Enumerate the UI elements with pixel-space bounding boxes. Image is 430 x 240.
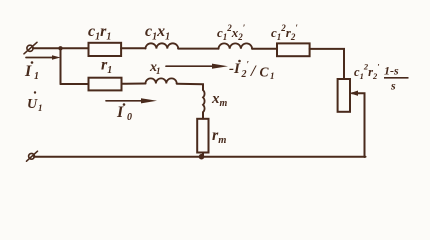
wire bottom rail: [34, 156, 366, 158]
label I0: [116, 103, 132, 123]
wire top rail: terminal to junction to resistor c1r1: [33, 47, 89, 49]
wire between c1x1 and inductor c1^2x2': [178, 48, 218, 50]
svg-text:1: 1: [270, 71, 275, 81]
svg-text:c1r1: c1r1: [88, 23, 111, 43]
label c1^2r2'(1-s)/s with fraction: [354, 62, 409, 93]
svg-text:0: 0: [127, 112, 132, 123]
svg-text:1: 1: [38, 103, 43, 113]
current arrow I0: [106, 98, 157, 103]
svg-text:c1x1: c1x1: [145, 23, 170, 43]
wire from x1 to magnetizing branch corner: [177, 84, 203, 90]
inductor xm vertical: [203, 90, 205, 112]
svg-text:′: ′: [247, 60, 250, 70]
svg-text:I: I: [24, 63, 32, 80]
node A junction dot: [58, 46, 62, 50]
wire between c1r1 and inductor c1x1: [121, 47, 145, 49]
svg-text:x1: x1: [149, 60, 161, 76]
label -I2'/C1: [229, 60, 275, 82]
wire lower branch to resistor r1: [61, 83, 89, 85]
svg-text:c12x2′: c12x2′: [217, 23, 246, 42]
label U1: [27, 91, 43, 113]
svg-text:2: 2: [241, 69, 247, 80]
wire between r1 and inductor x1: [122, 83, 146, 85]
resistor rm vertical: [197, 119, 208, 153]
svg-text:/: /: [250, 63, 257, 80]
wire rm to bottom rail: [202, 153, 204, 157]
svg-text:1-s: 1-s: [384, 64, 399, 78]
label I1: [24, 61, 39, 82]
wire between c1^2x2' and resistor c1^2r2': [252, 48, 277, 50]
resistor r1: [89, 78, 122, 91]
svg-text:r1: r1: [101, 57, 112, 77]
svg-text:I: I: [116, 104, 124, 121]
svg-text:c12r2′: c12r2′: [354, 62, 380, 82]
inductor c1x1: [146, 43, 179, 48]
resistor c1r1: [89, 43, 122, 56]
svg-text:-I: -I: [229, 61, 241, 77]
svg-text:C: C: [260, 65, 270, 80]
svg-text:xm: xm: [211, 91, 228, 109]
wire xm to rm: [202, 112, 204, 119]
resistor c1^2r2'(1-s)/s vertical: [338, 79, 350, 112]
node B junction dot on bottom rail: [199, 154, 205, 160]
wire top-right corner going down: [310, 49, 344, 79]
inductor x1: [146, 78, 177, 83]
inductor c1^2x2': [219, 43, 253, 48]
wire vertical from node A down to lower branch: [60, 48, 62, 84]
svg-text:rm: rm: [212, 127, 226, 146]
svg-text:c12r2′: c12r2′: [271, 23, 298, 42]
svg-text:1: 1: [34, 71, 39, 82]
current arrow -I2'/C1: [166, 64, 228, 69]
terminal bottom-left input: [27, 151, 38, 161]
svg-text:s: s: [390, 79, 396, 93]
current arrow into load + wire right side down: [350, 91, 365, 158]
terminal top-left input: [24, 42, 37, 54]
resistor c1^2r2': [277, 43, 310, 56]
current arrow I1: [26, 55, 61, 60]
svg-text:U: U: [27, 97, 38, 112]
